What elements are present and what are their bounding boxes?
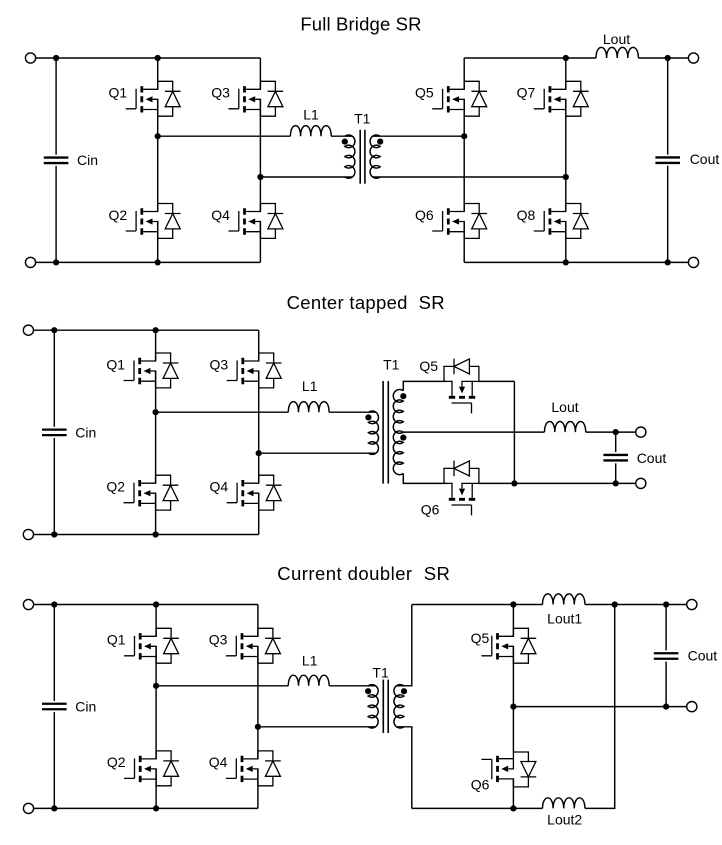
- wire: bottom rail primary: [34, 807, 258, 809]
- wire: T1 secondary top to Q5/Q6 midpoint: [373, 135, 465, 137]
- T1 secondary phase dot: [401, 688, 407, 694]
- svg-text:Q5: Q5: [471, 630, 490, 646]
- capacitor Cout: [654, 605, 679, 707]
- wire: top rail primary: [34, 329, 259, 331]
- node: Q2 source junction (bottom rail): [153, 805, 159, 811]
- T1 primary phase dot: [365, 688, 371, 694]
- T1 secondary phase dot (upper half): [400, 393, 406, 399]
- svg-text:Full Bridge SR: Full Bridge SR: [300, 13, 421, 34]
- T1 primary phase dot: [365, 414, 371, 420]
- output terminal - (right): [636, 478, 646, 488]
- svg-text:T1: T1: [372, 665, 389, 681]
- transformer T1 secondary winding: [370, 135, 380, 178]
- inductor Lout2: [543, 798, 585, 809]
- transistor Q3: [228, 81, 283, 116]
- node: Cin top junction: [51, 601, 57, 607]
- wire: mid output rail: [513, 706, 686, 708]
- node: Q7 drain junction (top rail): [563, 55, 569, 61]
- svg-text:Current doubler SR: Current doubler SR: [277, 563, 450, 584]
- node: Lout output junction: [665, 55, 671, 61]
- output terminal - (right): [687, 702, 697, 712]
- node: Cout bottom junction: [663, 704, 669, 710]
- transformer T1 core: [382, 381, 384, 484]
- wire: Q3/Q4 leg vertical: [259, 58, 261, 262]
- svg-text:Q4: Q4: [211, 207, 230, 223]
- transistor Q4: [226, 751, 281, 786]
- transistor Q2: [124, 751, 179, 786]
- node A: Q1/Q2 midpoint: [153, 683, 159, 689]
- node: Q1 drain junction (top rail): [153, 601, 159, 607]
- transistor Q1: [124, 628, 179, 663]
- svg-text:Cin: Cin: [75, 424, 96, 440]
- node B: Q3/Q4 midpoint: [257, 174, 263, 180]
- wire: Q3/Q4 leg vertical: [257, 605, 259, 809]
- transistor Q6: [432, 204, 487, 239]
- svg-text:L1: L1: [302, 652, 318, 668]
- transistor Q7: [534, 81, 589, 116]
- svg-text:Q5: Q5: [419, 358, 438, 374]
- svg-text:Q6: Q6: [415, 207, 434, 223]
- wire: Q3/Q4 leg vertical: [258, 330, 260, 534]
- capacitor Cout: [603, 432, 628, 483]
- wire: top rail primary: [34, 604, 258, 606]
- transistor Q8: [534, 204, 589, 239]
- svg-text:L1: L1: [302, 378, 318, 394]
- transistor Q2: [126, 204, 181, 239]
- transistor Q5: [432, 81, 487, 116]
- wire: secondary top lead to Q5 drain: [403, 381, 446, 390]
- wire: Q6 leg vertical: [512, 707, 514, 809]
- svg-text:Q1: Q1: [106, 356, 125, 372]
- output terminal - (bottom right): [688, 257, 698, 267]
- inductor L1: [288, 402, 329, 413]
- svg-text:Q1: Q1: [109, 85, 128, 101]
- inductor Lout1: [543, 594, 585, 605]
- transistor Q1: [126, 81, 181, 116]
- wire: Q1/Q2 midpoint to L1: [156, 411, 289, 413]
- transformer T1 core: [359, 130, 361, 184]
- wire: bottom rail to output terminal: [616, 482, 636, 484]
- wire: Q3/Q4 midpoint to T1 primary bottom: [258, 726, 376, 728]
- wire: Q7/Q8 leg vertical: [565, 58, 567, 262]
- svg-text:Lout1: Lout1: [547, 611, 582, 627]
- wire: bottom rail primary: [36, 261, 261, 263]
- svg-text:Q2: Q2: [106, 479, 125, 495]
- output terminal + (top right): [688, 53, 698, 63]
- node A: Q1/Q2 midpoint: [155, 133, 161, 139]
- transformer T1 secondary winding (center tapped): [393, 390, 403, 475]
- svg-text:Q5: Q5: [415, 85, 434, 101]
- svg-text:Lout2: Lout2: [547, 811, 582, 827]
- node: Cin top junction: [53, 55, 59, 61]
- node: Cout top junction: [613, 429, 619, 435]
- svg-text:Q2: Q2: [107, 754, 126, 770]
- T1 secondary phase dot: [377, 139, 383, 145]
- svg-text:Q6: Q6: [421, 502, 440, 518]
- svg-text:Q1: Q1: [107, 632, 126, 648]
- svg-text:T1: T1: [354, 111, 371, 127]
- svg-text:Cout: Cout: [690, 151, 720, 167]
- wire: secondary top lead riser: [396, 605, 412, 686]
- input terminal - (bottom left): [23, 803, 33, 813]
- wire: top rail secondary: [412, 604, 687, 606]
- wire: Q1/Q2 midpoint to L1: [156, 685, 288, 687]
- node: Cout bottom junction: [613, 480, 619, 486]
- node: Q2 source junction (bottom rail): [155, 259, 161, 265]
- node B: Q3/Q4 midpoint: [256, 450, 262, 456]
- svg-text:Cin: Cin: [77, 152, 98, 168]
- transistor Q4: [227, 475, 282, 510]
- transistor Q6 (source up): [481, 752, 536, 787]
- transformer T1 primary winding: [368, 411, 378, 454]
- wire: secondary bottom lead to Q6 drain: [403, 474, 446, 484]
- svg-text:Cout: Cout: [688, 648, 718, 664]
- transistor Q1: [124, 353, 179, 388]
- svg-text:Q3: Q3: [209, 632, 228, 648]
- transformer T1 primary winding: [345, 135, 355, 178]
- input terminal - (bottom left): [23, 529, 33, 539]
- svg-text:Lout: Lout: [603, 31, 630, 47]
- wire: T1 secondary bottom to Q7/Q8 midpoint: [373, 176, 566, 178]
- transistor Q3: [226, 628, 281, 663]
- inductor L1: [288, 675, 329, 686]
- svg-text:Q8: Q8: [517, 207, 536, 223]
- svg-text:Cin: Cin: [75, 698, 96, 714]
- node: Cin bottom junction: [51, 531, 57, 537]
- wire: L1 to T1 primary: [329, 685, 376, 687]
- node A: Q1/Q2 midpoint: [153, 409, 159, 415]
- node: Q7/Q8 midpoint: [563, 174, 569, 180]
- node: Cin bottom junction: [51, 805, 57, 811]
- wire: output return vertical: [513, 381, 515, 483]
- node: return vertical joins bottom rail: [511, 480, 517, 486]
- input terminal + (top left): [23, 599, 33, 609]
- wire: Q1/Q2 midpoint to L1: [158, 135, 291, 137]
- svg-text:Q2: Q2: [109, 207, 128, 223]
- wire: Q3/Q4 midpoint to T1 primary bottom: [259, 452, 377, 454]
- wire: L1 to T1 primary: [329, 411, 376, 413]
- capacitor Cin: [42, 605, 67, 809]
- node: Q6 drain junction (bottom rail): [510, 805, 516, 811]
- inductor Lout: [596, 47, 638, 58]
- transistor Q5 (rotated): [444, 359, 479, 414]
- capacitor Cin: [44, 58, 69, 262]
- node: Cin top junction: [51, 327, 57, 333]
- svg-text:Q3: Q3: [211, 85, 230, 101]
- wire: Lout to output terminal: [586, 431, 636, 433]
- node: Cin bottom junction: [53, 259, 59, 265]
- svg-text:L1: L1: [303, 106, 319, 122]
- input terminal + (top left): [25, 53, 35, 63]
- wire: bottom rail primary: [34, 534, 259, 536]
- wire: Q5/Q6 leg vertical: [463, 58, 465, 262]
- wire: Lout2 to output join vertical: [585, 605, 615, 809]
- node: Q5/Q6 midpoint: [461, 133, 467, 139]
- node: Q1 drain junction (top rail): [155, 55, 161, 61]
- transistor Q5: [481, 628, 536, 663]
- wire: top rail primary: [36, 57, 261, 59]
- inductor L1: [290, 126, 331, 137]
- capacitor Cin: [42, 330, 67, 534]
- svg-text:T1: T1: [383, 357, 400, 373]
- wire: bottom rail secondary: [412, 807, 543, 809]
- svg-text:Center tapped SR: Center tapped SR: [287, 292, 445, 313]
- node: Q1 drain junction (top rail): [153, 327, 159, 333]
- node: Q2 source junction (bottom rail): [153, 531, 159, 537]
- svg-text:Q4: Q4: [209, 754, 228, 770]
- wire: bottom rail secondary: [464, 261, 688, 263]
- transformer T1 primary winding: [368, 685, 378, 728]
- T1 secondary phase dot (lower half): [400, 435, 406, 441]
- transformer T1 secondary winding: [394, 685, 404, 728]
- wire: center tap to Lout: [403, 431, 544, 433]
- svg-text:Q4: Q4: [210, 479, 229, 495]
- svg-text:Q6: Q6: [471, 776, 490, 792]
- wire: Q6 source to bottom rail: [478, 482, 616, 484]
- transistor Q3: [227, 353, 282, 388]
- svg-text:Cout: Cout: [637, 450, 667, 466]
- wire: Q1/Q2 leg vertical: [157, 58, 159, 262]
- node B: Q3/Q4 midpoint: [255, 724, 261, 730]
- wire: Q3/Q4 midpoint to T1 primary bottom: [260, 176, 352, 178]
- wire: Q1/Q2 leg vertical: [155, 605, 157, 809]
- node: Q5 drain junction (top rail): [510, 601, 516, 607]
- transistor Q2: [124, 475, 179, 510]
- inductor Lout: [545, 422, 586, 433]
- svg-text:Q7: Q7: [517, 85, 536, 101]
- transistor Q4: [228, 204, 283, 239]
- wire: Q5 source to output return vertical: [478, 380, 514, 382]
- svg-text:Lout: Lout: [551, 399, 578, 415]
- input terminal + (top left): [23, 325, 33, 335]
- node: Cout bottom junction: [665, 259, 671, 265]
- svg-text:Q3: Q3: [210, 356, 229, 372]
- capacitor Cout: [655, 58, 680, 262]
- wire: L1 to T1 primary: [331, 135, 352, 137]
- transformer T1 core: [382, 680, 384, 733]
- wire: secondary bottom lead riser: [396, 727, 412, 809]
- node: Q8 source junction (bottom rail): [563, 259, 569, 265]
- node: Lout1 output junction: [612, 601, 618, 607]
- T1 primary phase dot: [342, 139, 348, 145]
- transistor Q6 (rotated): [444, 461, 479, 516]
- node: Cout top junction: [663, 601, 669, 607]
- input terminal - (bottom left): [25, 257, 35, 267]
- wire: Q1/Q2 leg vertical: [155, 330, 157, 534]
- node: Q5 source junction (mid rail): [510, 704, 516, 710]
- wire: top rail secondary: [464, 57, 688, 59]
- wire: Q5 leg vertical: [512, 605, 514, 707]
- output terminal + (right): [636, 427, 646, 437]
- output terminal + (top right): [687, 599, 697, 609]
